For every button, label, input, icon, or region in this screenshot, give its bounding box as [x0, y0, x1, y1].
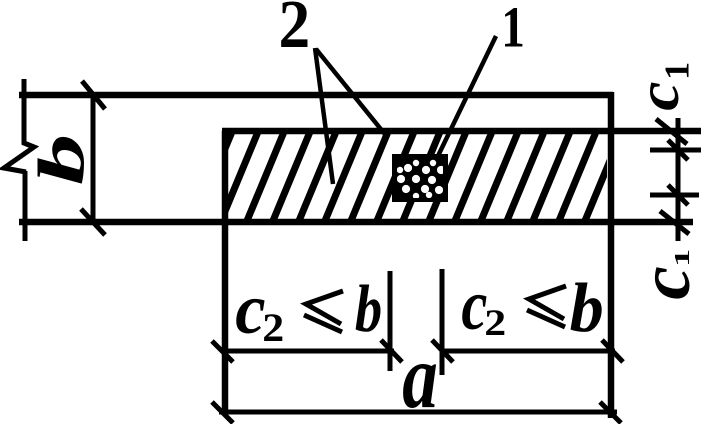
svg-text:c: c	[625, 81, 691, 110]
svg-text:b: b	[25, 134, 97, 185]
svg-text:b: b	[355, 273, 382, 346]
svg-text:2: 2	[279, 0, 311, 63]
svg-text:c: c	[461, 265, 487, 345]
svg-text:2: 2	[484, 302, 506, 343]
svg-text:a: a	[402, 325, 438, 424]
svg-text:c: c	[624, 266, 703, 300]
svg-text:1: 1	[657, 62, 697, 80]
svg-text:1: 1	[501, 0, 525, 60]
svg-text:2: 2	[262, 307, 284, 351]
svg-text:b: b	[570, 269, 604, 346]
svg-text:c: c	[235, 269, 265, 349]
svg-text:1: 1	[671, 249, 694, 267]
